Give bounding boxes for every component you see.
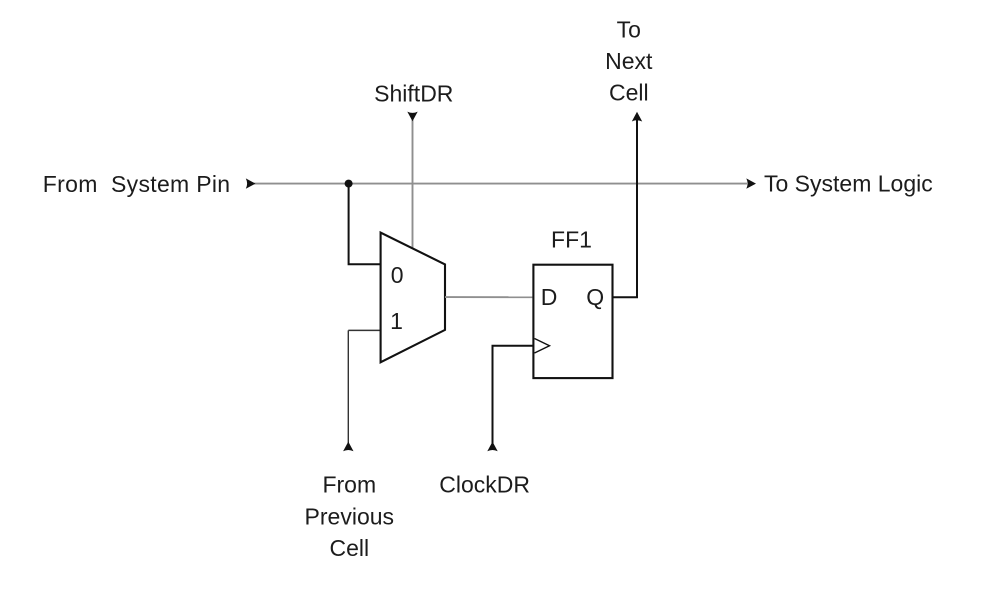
wire: ShiftDR vertical select line into mux <box>412 119 414 249</box>
svg-text:ClockDR: ClockDR <box>439 472 530 498</box>
svg-text:Q: Q <box>586 284 604 310</box>
wire: mux input 1 stub <box>348 329 380 331</box>
svg-text:Cell: Cell <box>609 79 649 105</box>
svg-text:Cell: Cell <box>329 535 369 561</box>
svg-text:From System Pin: From System Pin <box>43 171 231 197</box>
wire: mux output to FF1 D input <box>445 296 532 298</box>
svg-text:FF1: FF1 <box>551 227 592 253</box>
svg-text:1: 1 <box>390 308 403 334</box>
wire: junction drop to mux input 0 <box>349 184 380 265</box>
svg-text:0: 0 <box>391 262 404 288</box>
arrowhead: From Previous Cell up arrow <box>343 442 353 452</box>
svg-text:To System Logic: To System Logic <box>764 171 933 197</box>
arrowhead: source arrow on From System Pin wire <box>246 178 256 188</box>
arrowhead: ShiftDR down arrow <box>407 112 417 122</box>
arrowhead: To System Logic arrow <box>746 178 756 188</box>
clock triangle on FF1 <box>535 339 550 354</box>
svg-text:ShiftDR: ShiftDR <box>374 81 453 107</box>
svg-text:From: From <box>322 472 376 498</box>
arrowhead: To Next Cell up arrow <box>632 112 642 122</box>
junction dot on main wire <box>345 180 353 188</box>
wire: ClockDR into FF1 clock <box>493 346 534 450</box>
arrowhead: ClockDR up arrow <box>487 442 497 452</box>
multiplexer MUX trapezoid <box>381 233 445 363</box>
svg-text:Previous: Previous <box>305 503 394 529</box>
wire: From Previous Cell vertical <box>347 330 349 449</box>
wire: FF1 Q output up to To Next Cell <box>613 120 638 297</box>
svg-text:Next: Next <box>605 48 653 74</box>
svg-text:D: D <box>541 284 558 310</box>
wire: main horizontal From System Pin to To System Logic <box>249 183 747 185</box>
flip-flop FF1 box <box>533 265 612 378</box>
svg-text:To: To <box>617 17 641 43</box>
